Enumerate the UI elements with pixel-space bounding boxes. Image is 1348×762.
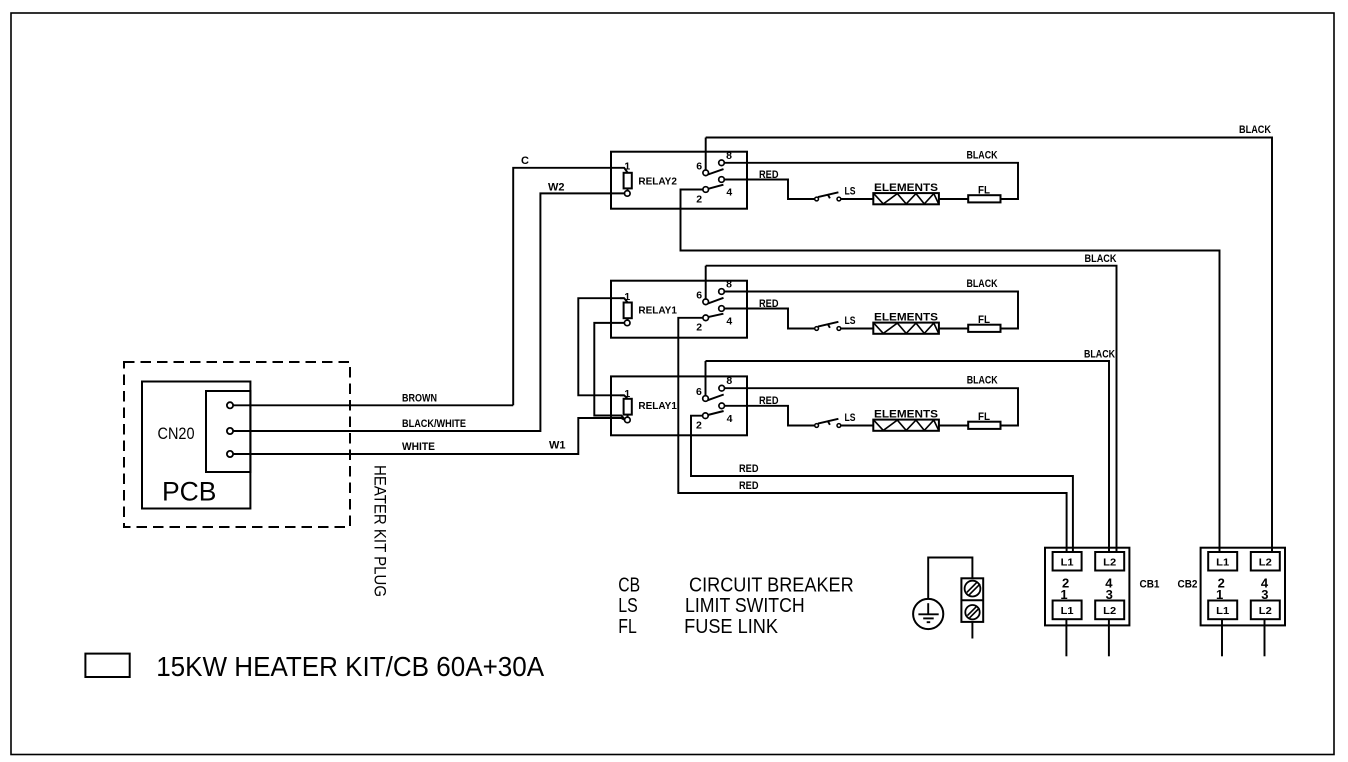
relay K1A pin 0 ring	[624, 320, 630, 326]
svg-text:RED: RED	[739, 480, 759, 492]
svg-text:CIRCUIT BREAKER: CIRCUIT BREAKER	[689, 575, 854, 597]
heating element E3 box	[873, 420, 939, 431]
relay K1A coil to ring stub	[626, 318, 629, 320]
svg-text:6: 6	[696, 160, 702, 172]
connector CN20 body	[206, 391, 250, 472]
svg-text:1: 1	[1060, 587, 1067, 602]
svg-text:BLACK: BLACK	[1239, 124, 1271, 136]
svg-text:HEATER KIT PLUG: HEATER KIT PLUG	[371, 465, 390, 597]
relay K2 coil to ring stub	[626, 188, 628, 190]
relay K1B switch arm 6-8	[708, 395, 724, 401]
svg-text:2: 2	[696, 322, 702, 334]
fuse link FL3 body	[968, 422, 1000, 429]
relay K1A switch arm 2-4	[708, 314, 723, 317]
svg-text:LIMIT SWITCH: LIMIT SWITCH	[685, 595, 805, 617]
wire WHITE net: CN20 pin3 to relay K1B pin0 (node W1)	[233, 418, 625, 454]
relay K1B pin 6 contact	[703, 396, 709, 402]
relay K2 coil	[624, 173, 632, 189]
relay K2 pin 8 contact	[719, 160, 725, 166]
relay K1A pin 2 contact	[703, 315, 709, 321]
relay K2 pin 2 contact	[703, 187, 709, 193]
relay K2 switch arm 6-8	[708, 169, 724, 174]
relay K1A pin 1 lead	[620, 298, 628, 302]
wire earth to terminal block	[928, 558, 972, 599]
circuit breaker CB2 body	[1201, 548, 1285, 626]
relay K1B pin 6 riser wire	[705, 361, 707, 396]
svg-text:CB1: CB1	[1140, 579, 1160, 591]
CB2 terminal L2 top box	[1251, 552, 1280, 571]
svg-text:L1: L1	[1061, 557, 1074, 569]
wire BLACK/WHITE net: CN20 pin2 to relay K2 pin0 (node W2)	[233, 193, 624, 431]
svg-text:RELAY1: RELAY1	[638, 305, 677, 317]
relay K2 pin 1 lead	[620, 168, 628, 173]
wire BLACK: relay K2 pin6 to CB2 L2	[706, 138, 1272, 553]
svg-text:3: 3	[1106, 587, 1113, 602]
limit switch LS3 left contact	[815, 424, 819, 428]
wire relay K1A pin1 to relay K1B pin1 link	[578, 298, 624, 395]
svg-text:LS: LS	[845, 186, 856, 198]
fuse link FL2 body	[968, 325, 1000, 332]
svg-text:RELAY2: RELAY2	[638, 176, 677, 188]
relay K2 pin 6 riser wire	[705, 138, 707, 171]
relay K1B pin 0 ring	[625, 417, 631, 423]
svg-text:15KW HEATER KIT/CB 60A+30A: 15KW HEATER KIT/CB 60A+30A	[156, 651, 544, 682]
relay K1B pin 2 contact	[703, 413, 709, 419]
svg-text:RELAY1: RELAY1	[638, 400, 677, 412]
CB2 load wire L1	[1221, 619, 1223, 656]
svg-text:L1: L1	[1061, 605, 1074, 617]
svg-text:L2: L2	[1103, 605, 1116, 617]
svg-text:L1: L1	[1216, 605, 1229, 617]
limit switch LS2 right contact	[837, 327, 841, 331]
title key box	[85, 654, 129, 677]
heating element E3 zigzag	[874, 420, 939, 430]
svg-text:W1: W1	[549, 439, 566, 451]
CB1 load wire L2	[1108, 619, 1110, 656]
limit switch LS1 arm	[818, 192, 839, 197]
svg-text:CB2: CB2	[1178, 579, 1198, 591]
CN20 pin 3	[227, 451, 233, 457]
wire BLACK: relay K1B pin6 to CB1 L2	[706, 361, 1110, 552]
wire RED: relay pin4 to limit switch LS3	[725, 406, 815, 426]
heating element E1 zigzag	[874, 194, 939, 204]
wire BROWN net: CN20 pin1 to relay K2 pin1 (node C)	[233, 404, 513, 406]
relay K1B coil to ring stub	[626, 415, 628, 418]
svg-text:6: 6	[696, 289, 702, 301]
relay K2 RELAY2 box	[611, 152, 747, 209]
wire LS1 to elements	[841, 198, 874, 200]
limit switch LS3 actuator tick	[828, 421, 830, 425]
limit switch LS3 arm	[818, 419, 839, 424]
svg-text:W2: W2	[548, 182, 565, 194]
CB1 terminal L2 top box	[1095, 552, 1124, 571]
svg-text:BLACK: BLACK	[967, 375, 998, 387]
svg-text:BLACK: BLACK	[1085, 253, 1117, 265]
terminal block screw 1	[965, 581, 981, 597]
CB2 load wire L2	[1264, 619, 1266, 656]
svg-text:4: 4	[726, 316, 732, 328]
fuse link FL1 body	[968, 195, 1000, 202]
limit switch LS2 actuator tick	[828, 324, 830, 328]
wire terminal block tail	[971, 622, 973, 639]
wire LS2 to elements	[841, 328, 874, 330]
relay K1B pin 1 lead	[620, 395, 628, 399]
svg-text:8: 8	[726, 375, 732, 387]
svg-text:WHITE: WHITE	[402, 441, 435, 453]
wire RED relay K1B pin2 to CB1 L1	[691, 416, 1073, 552]
relay K2 pin 0 ring	[625, 191, 631, 197]
heating element E2 zigzag	[874, 323, 939, 333]
relay K1A pin 4 contact	[719, 306, 725, 312]
svg-text:ELEMENTS: ELEMENTS	[874, 182, 938, 194]
wire FL2 to relay pin8 (BLACK return)	[724, 292, 1018, 329]
svg-text:RED: RED	[759, 395, 779, 407]
svg-text:BLACK/WHITE: BLACK/WHITE	[402, 418, 466, 430]
svg-text:4: 4	[727, 413, 733, 425]
PCB board outline	[142, 382, 250, 509]
terminal block TB1 body	[961, 578, 983, 622]
circuit breaker CB1 body	[1045, 548, 1129, 626]
CB1 terminal L1 bottom box	[1053, 601, 1082, 620]
limit switch LS2 arm	[818, 322, 839, 327]
CB2 terminal L1 bottom box	[1208, 601, 1237, 620]
CN20 pin 2	[227, 428, 233, 434]
limit switch LS3 right contact	[837, 424, 841, 428]
wire LS3 to elements	[841, 425, 874, 427]
svg-text:BLACK: BLACK	[1084, 348, 1115, 360]
svg-text:L1: L1	[1216, 557, 1229, 569]
PCB heater kit plug dashed boundary	[124, 362, 350, 527]
svg-text:LS: LS	[845, 315, 856, 327]
relay K1A coil	[624, 303, 632, 319]
svg-text:8: 8	[726, 279, 732, 291]
relay K1A RELAY1 box	[611, 281, 747, 338]
wire RED: relay pin4 to limit switch LS2	[724, 309, 814, 329]
svg-text:1: 1	[1216, 587, 1223, 602]
relay K1B RELAY1 box	[611, 376, 747, 435]
heating element E1 box	[873, 193, 939, 204]
wire RED relay K1A pin2 to CB1 L1	[678, 318, 1066, 552]
CB1 terminal L1 top box	[1053, 552, 1082, 571]
svg-text:ELEMENTS: ELEMENTS	[874, 311, 938, 323]
limit switch LS1 right contact	[837, 197, 841, 201]
CN20 pin 1	[227, 402, 233, 408]
CB1 terminal L2 bottom box	[1095, 601, 1124, 620]
relay K1A switch arm 6-8	[708, 298, 724, 304]
wire FL1 to relay pin8 (BLACK return)	[724, 163, 1018, 199]
limit switch LS1 left contact	[815, 197, 819, 201]
wire relay K2 pin2 to CB2 L1	[681, 190, 1220, 553]
svg-text:FL: FL	[978, 184, 990, 196]
wire elements to fuse link FL1	[939, 198, 968, 200]
svg-text:8: 8	[726, 150, 732, 162]
terminal block screw 2	[965, 605, 979, 619]
svg-text:6: 6	[696, 386, 702, 398]
relay K1A pin 6 riser wire	[705, 266, 707, 299]
relay K1B pin 8 contact	[719, 385, 725, 391]
relay K2 pin 6 contact	[703, 170, 709, 176]
protective earth symbol	[913, 599, 943, 629]
svg-text:BLACK: BLACK	[967, 278, 998, 290]
svg-text:4: 4	[726, 187, 732, 199]
wire FL3 to relay pin8 (BLACK return)	[725, 388, 1019, 425]
svg-text:LS: LS	[845, 412, 856, 424]
relay K1A pin 8 contact	[719, 289, 725, 295]
relay K2 switch arm 2-4	[708, 185, 723, 189]
relay K1B switch arm 2-4	[708, 411, 724, 415]
limit switch LS2 left contact	[815, 327, 819, 331]
svg-text:L2: L2	[1259, 557, 1272, 569]
svg-text:C: C	[521, 155, 529, 167]
relay K1B coil	[624, 399, 632, 415]
wire elements to fuse link FL2	[939, 328, 968, 330]
svg-text:RED: RED	[739, 463, 759, 475]
svg-text:FL: FL	[978, 411, 990, 423]
svg-text:BROWN: BROWN	[402, 392, 437, 404]
svg-text:FL: FL	[618, 616, 637, 638]
svg-text:RED: RED	[759, 298, 779, 310]
svg-text:2: 2	[696, 193, 702, 205]
wire elements to fuse link FL3	[939, 425, 968, 427]
svg-text:RED: RED	[759, 169, 779, 181]
svg-text:3: 3	[1261, 587, 1268, 602]
CB2 terminal L2 bottom box	[1251, 601, 1280, 620]
svg-text:ELEMENTS: ELEMENTS	[874, 408, 938, 420]
svg-text:CN20: CN20	[158, 424, 195, 443]
limit switch LS1 actuator tick	[828, 194, 830, 198]
wire RED: relay pin4 to limit switch LS1	[724, 180, 814, 200]
svg-text:L2: L2	[1103, 557, 1116, 569]
relay K1B pin 4 contact	[719, 403, 725, 409]
relay K1A pin 6 contact	[703, 299, 709, 305]
svg-text:2: 2	[696, 420, 702, 432]
svg-text:LS: LS	[618, 595, 638, 617]
svg-text:L2: L2	[1259, 605, 1272, 617]
wire BLACK: relay K1A pin6 to CB1 L2	[706, 266, 1117, 552]
svg-text:BLACK: BLACK	[967, 149, 998, 161]
relay K2 pin 4 contact	[719, 177, 725, 183]
CB2 terminal L1 top box	[1208, 552, 1237, 571]
wire relay K1A pin0 to relay K1B pin0 link	[594, 323, 624, 419]
CB1 load wire L1	[1065, 619, 1067, 656]
svg-text:FUSE LINK: FUSE LINK	[684, 616, 778, 638]
svg-text:PCB: PCB	[162, 477, 217, 507]
svg-text:CB: CB	[618, 575, 640, 597]
heating element E2 box	[873, 323, 939, 334]
svg-text:FL: FL	[978, 314, 990, 326]
